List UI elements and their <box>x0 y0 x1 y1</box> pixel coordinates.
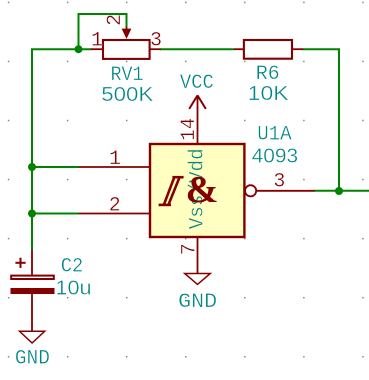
svg-text:2: 2 <box>104 14 127 26</box>
wire output right <box>314 190 369 192</box>
wire R6 right down <box>303 49 340 191</box>
svg-text:&: & <box>186 169 219 211</box>
svg-text:VCC: VCC <box>180 72 214 95</box>
svg-text:GND: GND <box>15 348 50 371</box>
pin 7 line (U1A Vss) <box>197 237 199 274</box>
power VCC symbol <box>189 95 206 109</box>
pin 2 line (U1A input B) <box>79 213 151 215</box>
pin 1 line (U1A input A) <box>79 166 151 168</box>
pin 3 line (U1A output) <box>256 190 315 192</box>
potentiometer RV1 <box>91 27 161 59</box>
wire wiper-loop top <box>79 14 127 49</box>
svg-text:500K: 500K <box>101 84 154 106</box>
wire input1 <box>32 166 79 168</box>
svg-text:14: 14 <box>178 118 201 141</box>
svg-text:1: 1 <box>109 148 121 171</box>
junction C input2 <box>28 210 36 218</box>
svg-text:C2: C2 <box>61 255 84 278</box>
svg-text:3: 3 <box>273 170 285 193</box>
ground C2 <box>20 331 45 343</box>
schmitt hysteresis symbol <box>159 177 184 205</box>
resistor R6 <box>234 40 303 59</box>
svg-text:1: 1 <box>91 29 103 52</box>
wire pot to R6 <box>160 48 234 50</box>
svg-text:2: 2 <box>109 194 121 217</box>
svg-text:GND: GND <box>178 291 217 314</box>
svg-text:4093: 4093 <box>252 145 299 167</box>
output bubble <box>245 185 256 196</box>
wire input2 <box>32 213 79 215</box>
svg-text:10K: 10K <box>248 83 290 105</box>
junction B input1 <box>28 163 36 171</box>
capacitor C2 <box>11 250 55 332</box>
wire main top rail <box>32 49 92 250</box>
svg-text:7: 7 <box>179 243 202 255</box>
junction D output <box>335 187 343 195</box>
ground U1A <box>185 274 211 285</box>
svg-text:3: 3 <box>150 30 162 53</box>
junction A pot <box>75 45 83 53</box>
pin 14 line (U1A Vdd) <box>197 95 199 144</box>
svg-text:U1A: U1A <box>257 123 292 146</box>
svg-text:10u: 10u <box>56 277 92 299</box>
NAND gate U1A body <box>150 144 244 237</box>
